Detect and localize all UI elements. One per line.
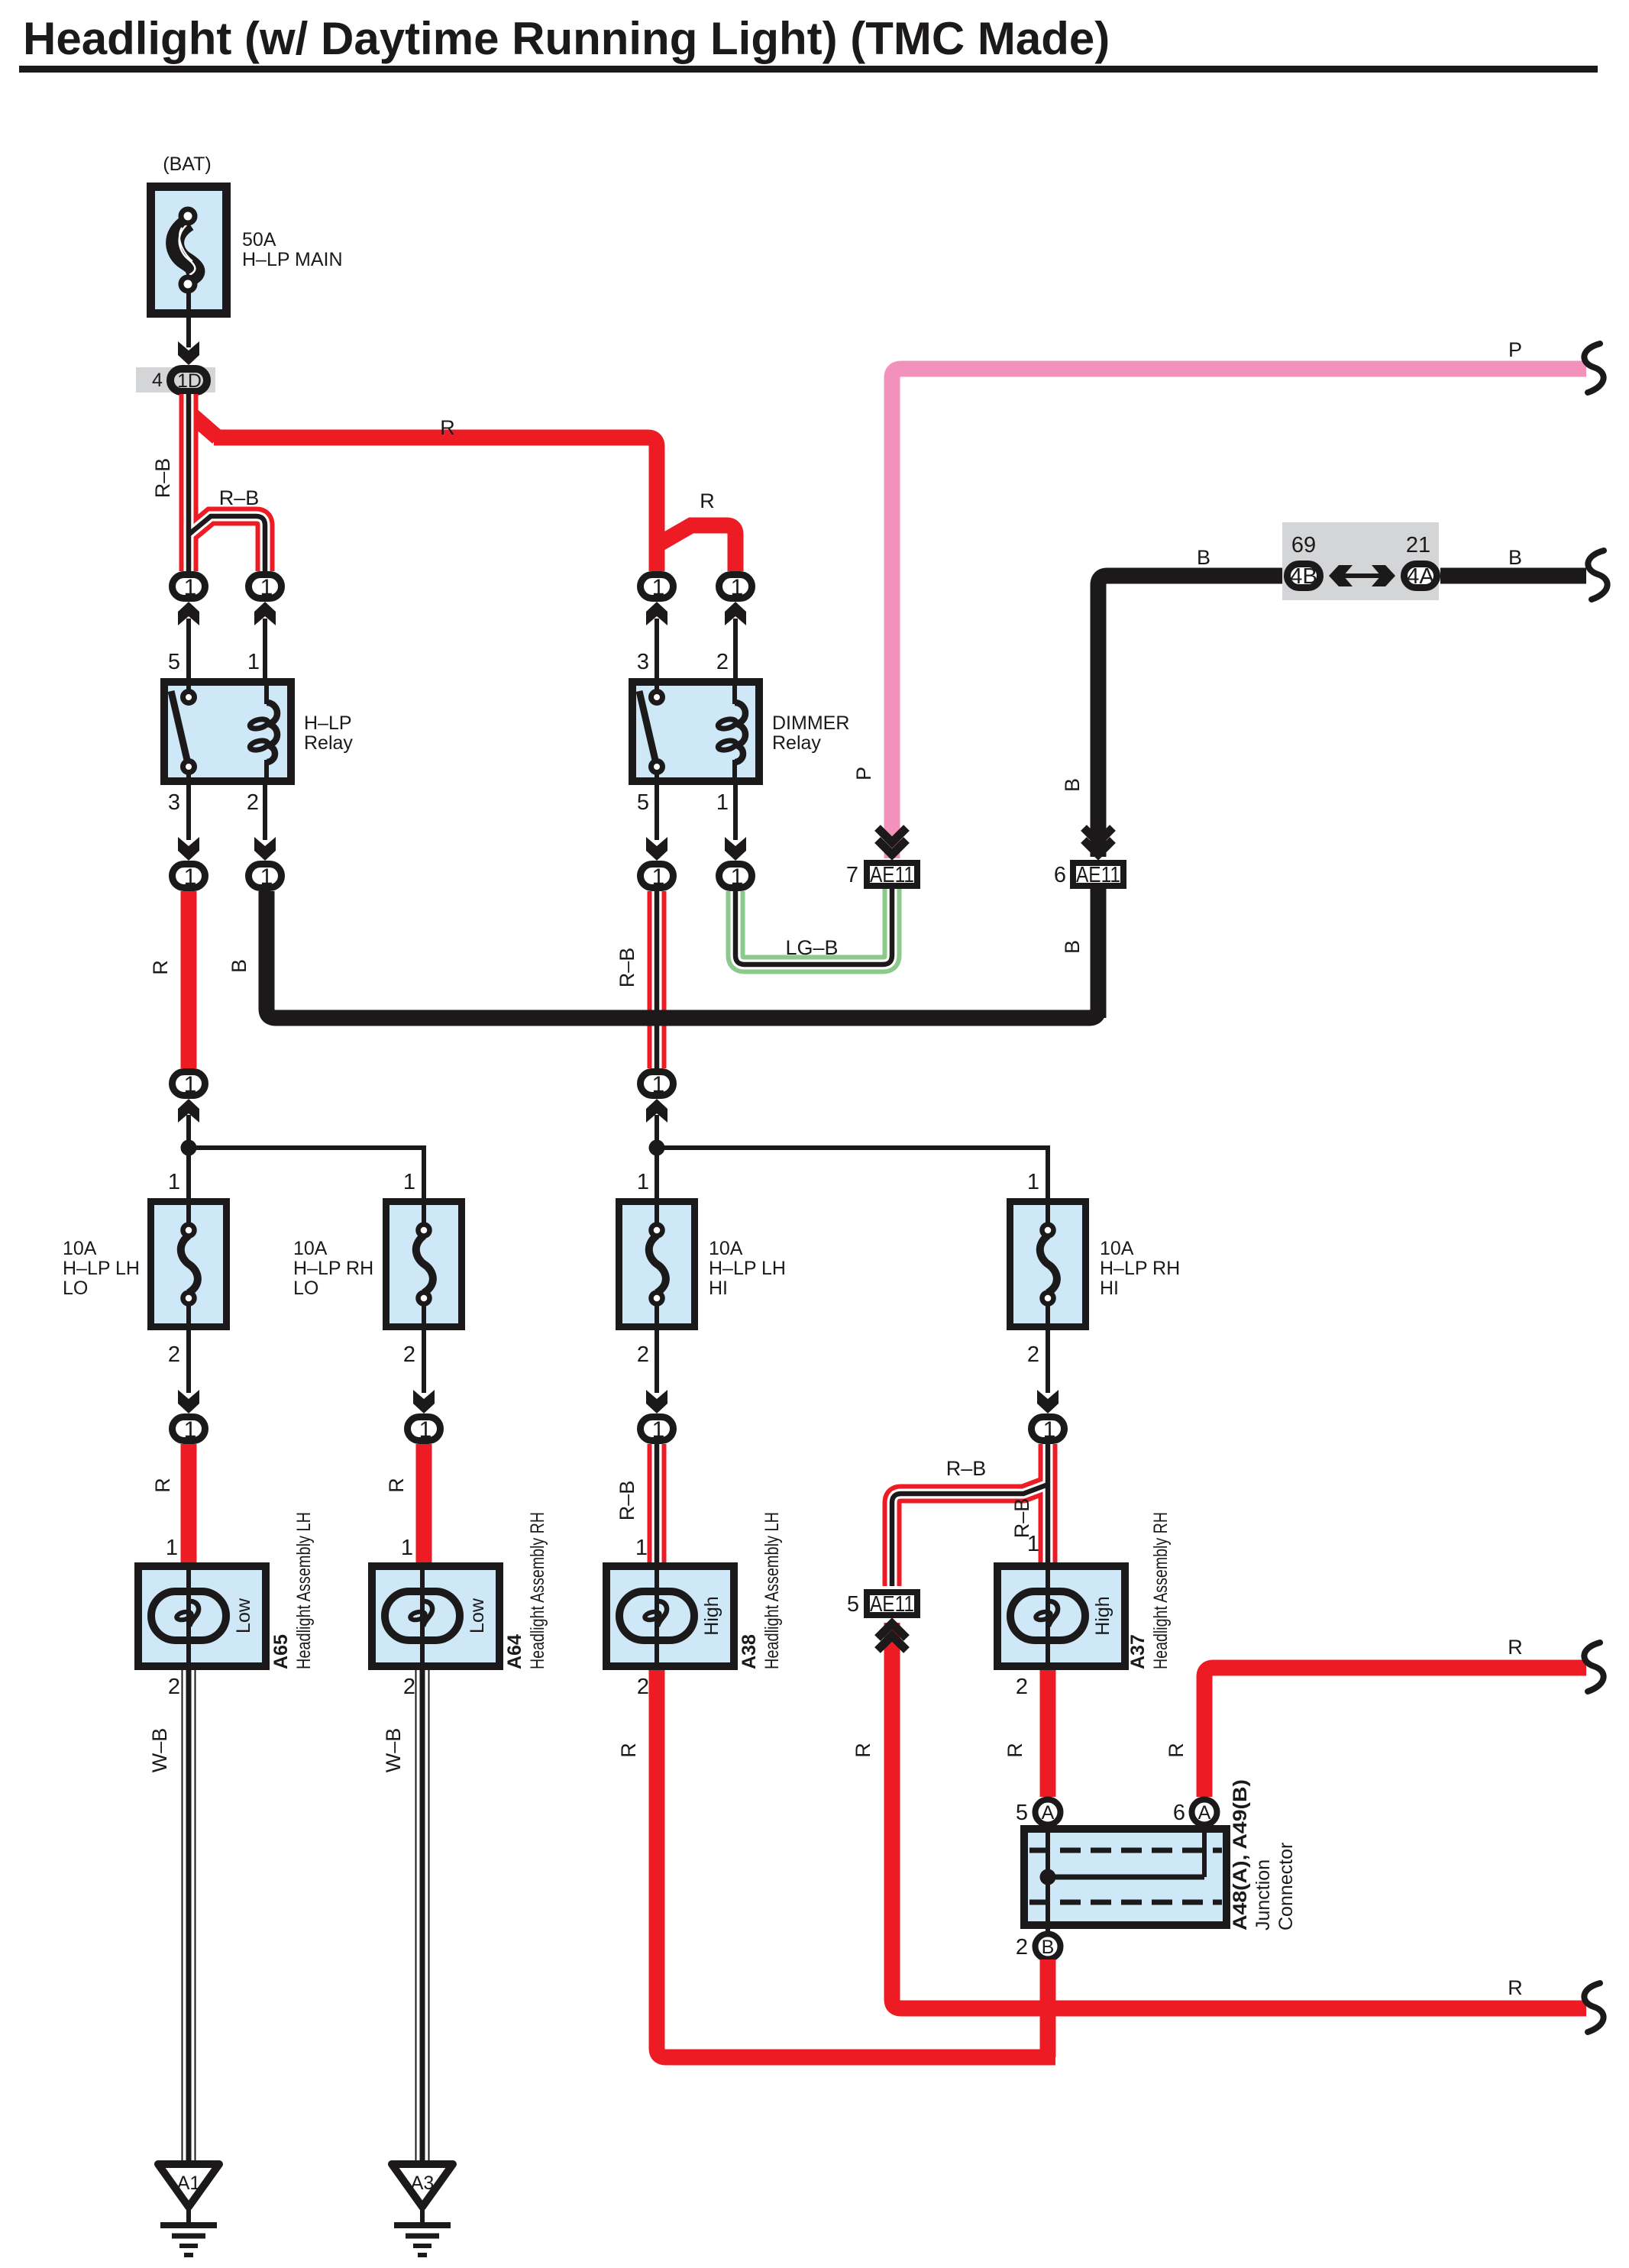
svg-text:5: 5 — [637, 790, 649, 815]
svg-text:HI: HI — [1100, 1278, 1119, 1299]
svg-text:P: P — [1508, 338, 1522, 361]
svg-text:R: R — [852, 1743, 874, 1758]
fusible link 50A H-LP MAIN — [151, 153, 343, 314]
svg-text:1: 1 — [652, 575, 665, 600]
svg-text:2: 2 — [168, 1342, 180, 1367]
svg-text:1: 1 — [184, 864, 197, 890]
svg-text:Headlight (w/ Daytime Running: Headlight (w/ Daytime Running Light) (TM… — [23, 13, 1110, 64]
pin 2 labels below headlights — [168, 1675, 1028, 1699]
svg-text:LO: LO — [293, 1278, 318, 1299]
svg-text:H–LP LH: H–LP LH — [709, 1258, 786, 1279]
svg-text:1: 1 — [260, 575, 273, 600]
pin 1 labels above headlights — [166, 1532, 1039, 1560]
connector 6 AE11 — [1054, 863, 1123, 887]
svg-text:Connector: Connector — [1275, 1843, 1297, 1930]
svg-text:2: 2 — [1016, 1935, 1028, 1959]
connector 7 AE11 — [846, 863, 917, 887]
svg-text:1: 1 — [1043, 1417, 1056, 1443]
svg-text:AE11: AE11 — [870, 863, 914, 887]
connector oval 1 (H-LP pin3 bottom) — [173, 864, 205, 890]
svg-text:1: 1 — [168, 1170, 180, 1194]
svg-text:1: 1 — [652, 1072, 665, 1097]
svg-text:R–B: R–B — [616, 948, 638, 988]
connector circle A (junction pin5) — [1036, 1800, 1061, 1825]
break B — [1588, 551, 1607, 599]
svg-text:R: R — [440, 416, 455, 439]
svg-text:R: R — [1004, 1743, 1026, 1758]
connector 5 AE11 — [847, 1592, 917, 1617]
pin labels above relays — [168, 650, 729, 674]
svg-text:2: 2 — [403, 1342, 415, 1367]
connector oval 1 (below fuse4) — [1032, 1417, 1065, 1443]
svg-text:1: 1 — [652, 864, 665, 890]
chevron into AE11-6 — [1084, 828, 1113, 855]
svg-text:B: B — [1042, 1937, 1055, 1958]
svg-text:B: B — [1197, 546, 1210, 569]
svg-text:A3: A3 — [411, 2173, 435, 2194]
svg-text:R: R — [1165, 1743, 1188, 1758]
svg-text:2: 2 — [168, 1675, 180, 1699]
svg-text:A37: A37 — [1127, 1634, 1149, 1669]
node fuse feed right (junction dot) — [649, 1140, 665, 1156]
connector oval 1 (fuse feed right) — [641, 1072, 674, 1098]
svg-text:A65: A65 — [270, 1634, 292, 1669]
svg-text:2: 2 — [716, 650, 729, 674]
svg-text:1: 1 — [635, 1536, 648, 1560]
svg-text:3: 3 — [637, 650, 649, 674]
connector circle A (junction pin6) — [1192, 1800, 1217, 1825]
svg-text:B: B — [228, 959, 250, 973]
svg-text:R–B: R–B — [219, 486, 260, 509]
wire B top (to 4B and from 4A) — [1098, 576, 1586, 857]
svg-text:10A: 10A — [293, 1238, 328, 1259]
ground A3 — [392, 2164, 453, 2255]
svg-text:R: R — [1508, 1636, 1523, 1659]
headlight assembly A38 High — [606, 1512, 783, 1670]
svg-text:2: 2 — [1016, 1675, 1028, 1699]
wire B (H-LP pin2 down, across, up to AE11-6) — [267, 891, 1098, 1018]
wire R A37 to junction A5 — [1040, 1670, 1056, 1797]
relay DIMMER — [632, 678, 849, 785]
svg-text:Headlight Assembly RH: Headlight Assembly RH — [1150, 1512, 1172, 1669]
wire LG-B (dimmer pin1 to AE11-7) — [735, 889, 892, 964]
svg-text:W–B: W–B — [148, 1728, 171, 1773]
svg-text:(BAT): (BAT) — [163, 153, 211, 175]
svg-text:4: 4 — [152, 370, 163, 391]
svg-text:4B: 4B — [1290, 564, 1317, 589]
svg-text:Headlight Assembly LH: Headlight Assembly LH — [293, 1512, 315, 1669]
svg-text:1: 1 — [184, 575, 197, 600]
wire R (H-LP pin3 to fuse feed oval) — [181, 891, 197, 1068]
wire R fuse1 to A65 — [181, 1444, 197, 1562]
arrows up into fuse feed ovals — [178, 1099, 667, 1148]
connector oval 1 (dimmer relay pin2 top) — [719, 575, 752, 601]
svg-text:H–LP LH: H–LP LH — [63, 1258, 140, 1279]
wire R-B (dimmer pin5 to fuse feed oval) — [648, 891, 667, 1068]
svg-text:4A: 4A — [1407, 564, 1435, 589]
headlight assembly A64 Low — [372, 1512, 548, 1670]
svg-text:B: B — [1508, 546, 1522, 569]
svg-text:5: 5 — [1016, 1801, 1028, 1825]
svg-text:69: 69 — [1291, 533, 1316, 557]
pin labels below relays — [168, 790, 729, 815]
wire R-B fuse3 to A38 — [648, 1444, 667, 1562]
wires relay bottom to ovals with down arrows — [178, 785, 746, 861]
connector oval 1 (below fuse1) — [173, 1417, 205, 1443]
svg-text:H–LP RH: H–LP RH — [1100, 1258, 1180, 1279]
svg-text:LG–B: LG–B — [785, 936, 838, 959]
connector oval 1 (dimmer relay pin3 top) — [641, 575, 674, 601]
wire R-B from 1D down to relay pin5 and jog to pin1 — [189, 394, 265, 571]
svg-text:1: 1 — [247, 650, 260, 674]
svg-text:B: B — [1061, 778, 1084, 792]
svg-text:2: 2 — [637, 1675, 649, 1699]
svg-text:10A: 10A — [63, 1238, 97, 1259]
svg-text:10A: 10A — [709, 1238, 743, 1259]
svg-text:1: 1 — [419, 1417, 432, 1443]
svg-text:W–B: W–B — [382, 1728, 405, 1773]
svg-text:1: 1 — [1027, 1170, 1039, 1194]
svg-text:Low: Low — [233, 1598, 254, 1633]
wire fuse to 1D with arrow — [178, 291, 199, 365]
connector 4 1D — [136, 367, 215, 393]
svg-text:Low: Low — [467, 1598, 488, 1633]
svg-text:B: B — [1061, 940, 1084, 954]
svg-text:7: 7 — [846, 863, 858, 887]
svg-text:Headlight Assembly RH: Headlight Assembly RH — [527, 1512, 548, 1669]
break P — [1584, 344, 1603, 393]
pin 1 labels above fuses — [168, 1170, 1039, 1194]
svg-text:2: 2 — [1027, 1342, 1039, 1367]
wires feed to fuses 1+2 — [189, 1148, 424, 1198]
svg-text:10A: 10A — [1100, 1238, 1134, 1259]
svg-text:R: R — [385, 1478, 408, 1493]
svg-text:A38: A38 — [739, 1634, 760, 1669]
svg-text:A: A — [1042, 1802, 1055, 1824]
svg-text:2: 2 — [403, 1675, 415, 1699]
svg-text:1: 1 — [401, 1536, 413, 1560]
wire R junction B2 down — [1040, 1959, 1056, 2057]
connector oval 1 (fuse feed left) — [173, 1072, 205, 1098]
svg-text:H–LP: H–LP — [304, 712, 352, 734]
svg-text:R: R — [700, 489, 715, 512]
svg-text:AE11: AE11 — [1076, 863, 1120, 887]
svg-text:A1: A1 — [177, 2173, 201, 2194]
svg-text:A64: A64 — [504, 1634, 525, 1669]
node fuse feed left (junction dot) — [181, 1140, 197, 1156]
svg-text:1: 1 — [260, 864, 273, 890]
headlight assembly A65 Low — [138, 1512, 315, 1670]
wire R A38 down and right — [657, 1670, 1055, 2057]
junction connector A48(A) A49(B) — [1024, 1779, 1297, 1947]
wire B below AE11-6 — [1091, 889, 1107, 1018]
wire R AE11-5 down to right break — [892, 1623, 1586, 2008]
svg-text:AE11: AE11 — [870, 1592, 914, 1617]
svg-text:P: P — [852, 767, 875, 780]
svg-text:Headlight Assembly LH: Headlight Assembly LH — [761, 1512, 783, 1669]
headlight assembly A37 High — [997, 1512, 1172, 1670]
svg-text:1: 1 — [716, 790, 729, 815]
wire W-B A65 to ground A1 — [182, 1670, 196, 2163]
svg-text:H–LP MAIN: H–LP MAIN — [242, 249, 343, 270]
arrows up into top ovals + pin wires — [178, 602, 746, 678]
svg-text:High: High — [1092, 1596, 1113, 1635]
svg-text:R–B: R–B — [151, 458, 174, 499]
wire W-B A64 to ground A3 — [415, 1670, 430, 2163]
svg-text:1: 1 — [184, 1072, 197, 1097]
svg-text:Relay: Relay — [304, 732, 353, 754]
svg-text:R–B: R–B — [616, 1481, 638, 1521]
svg-text:3: 3 — [168, 790, 180, 815]
connector pair 69 4B / 21 4A — [1282, 522, 1439, 600]
connector oval 1 (below fuse2) — [408, 1417, 441, 1443]
svg-text:A: A — [1198, 1802, 1211, 1824]
svg-text:R: R — [149, 960, 172, 975]
svg-text:R–B: R–B — [946, 1457, 987, 1480]
svg-text:2: 2 — [637, 1342, 649, 1367]
wire R fuse2 to A64 — [416, 1444, 432, 1562]
fuse 10A H-LP RH HI — [1010, 1198, 1181, 1330]
title — [19, 13, 1598, 73]
svg-text:1: 1 — [652, 1417, 665, 1443]
svg-text:High: High — [701, 1596, 722, 1635]
svg-text:DIMMER: DIMMER — [772, 712, 849, 734]
svg-text:1: 1 — [637, 1170, 649, 1194]
connector oval 1 (H-LP relay pin5 top) — [173, 575, 205, 601]
fuse 10A H-LP RH LO — [293, 1198, 462, 1330]
svg-text:R: R — [617, 1743, 640, 1758]
connector oval 1 (H-LP pin2 bottom) — [249, 864, 282, 890]
svg-text:1: 1 — [403, 1170, 415, 1194]
svg-text:1: 1 — [166, 1536, 178, 1560]
svg-text:LO: LO — [63, 1278, 88, 1299]
connector oval 1 (dimmer pin5 bottom) — [641, 864, 674, 890]
svg-text:6: 6 — [1173, 1801, 1185, 1825]
connector circle B (junction pin2) — [1036, 1934, 1061, 1959]
svg-text:HI: HI — [709, 1278, 728, 1299]
relay H-LP — [164, 678, 353, 785]
wire R-B fuse4 to A37 and branch to AE11-5 — [892, 1444, 1048, 1586]
svg-text:H–LP RH: H–LP RH — [293, 1258, 373, 1279]
break R upper — [1584, 1643, 1603, 1691]
connector oval 1 (below fuse3) — [641, 1417, 674, 1443]
wire R main (1D to dimmer relay) — [189, 412, 735, 571]
svg-text:1: 1 — [731, 575, 744, 600]
svg-text:1: 1 — [184, 1417, 197, 1443]
chevron up into AE11-5 — [878, 1623, 907, 1650]
wires feed to fuses 3+4 — [657, 1148, 1048, 1198]
fuse 10A H-LP LH LO — [63, 1198, 227, 1330]
svg-text:R: R — [1508, 1976, 1523, 1999]
break R lower — [1584, 1983, 1603, 2032]
svg-text:1: 1 — [731, 864, 744, 890]
svg-text:R: R — [151, 1478, 174, 1493]
svg-text:1D: 1D — [177, 370, 202, 392]
svg-text:Relay: Relay — [772, 732, 821, 754]
svg-text:A48(A), A49(B): A48(A), A49(B) — [1230, 1779, 1251, 1930]
ground A1 — [158, 2164, 219, 2255]
svg-text:6: 6 — [1054, 863, 1066, 887]
svg-text:5: 5 — [168, 650, 180, 674]
wire P (pink) — [892, 369, 1586, 858]
wires fuse bottom to ovals with down arrows — [178, 1330, 1059, 1413]
connector oval 1 (dimmer pin1 bottom) — [719, 864, 752, 890]
wire R from right break into junction A6 — [1204, 1668, 1586, 1797]
svg-text:50A: 50A — [242, 229, 276, 250]
svg-text:2: 2 — [247, 790, 259, 815]
chevron into AE11-7 — [878, 828, 907, 855]
connector oval 1 (H-LP relay pin1 top) — [249, 575, 282, 601]
svg-text:21: 21 — [1406, 533, 1430, 557]
pin 2 labels below fuses — [168, 1342, 1039, 1367]
svg-text:1: 1 — [1027, 1532, 1039, 1556]
fuse 10A H-LP LH HI — [619, 1198, 787, 1330]
svg-text:Junction: Junction — [1252, 1859, 1274, 1930]
svg-text:5: 5 — [847, 1592, 859, 1617]
